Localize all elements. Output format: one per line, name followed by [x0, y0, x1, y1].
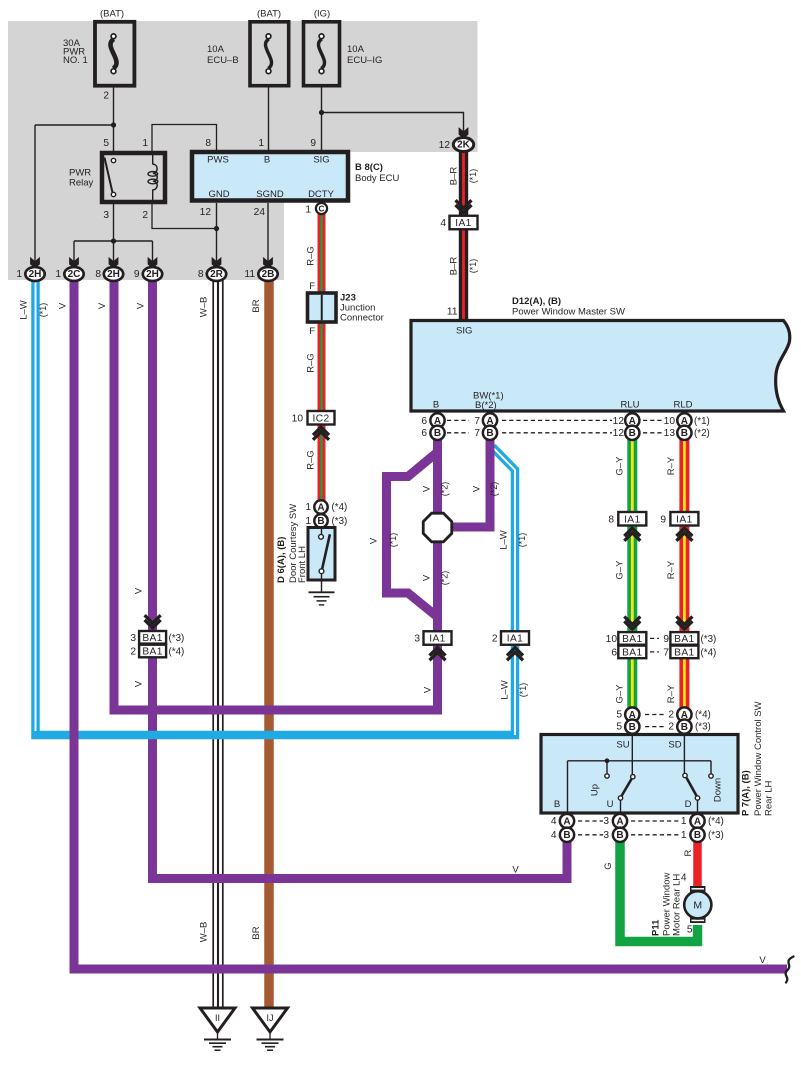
svg-text:PWS: PWS: [207, 155, 229, 166]
svg-text:B(*2): B(*2): [475, 400, 497, 411]
svg-text:V: V: [134, 587, 145, 594]
svg-text:2: 2: [668, 710, 674, 721]
svg-text:11: 11: [447, 307, 458, 318]
svg-text:U: U: [607, 799, 614, 810]
svg-text:V: V: [472, 485, 483, 492]
svg-text:R–G: R–G: [306, 450, 317, 470]
svg-text:B 8(C): B 8(C): [355, 162, 383, 173]
svg-text:BA1: BA1: [142, 633, 162, 644]
svg-text:P 7(A), (B): P 7(A), (B): [741, 770, 752, 816]
svg-text:6: 6: [421, 416, 427, 427]
svg-text:R–Y: R–Y: [666, 456, 677, 475]
svg-text:V: V: [134, 680, 145, 687]
svg-text:1: 1: [305, 516, 311, 527]
svg-text:8: 8: [205, 138, 211, 149]
svg-text:1: 1: [305, 205, 311, 216]
svg-text:SIG: SIG: [456, 326, 472, 337]
svg-text:Rear LH: Rear LH: [764, 780, 775, 816]
svg-text:IA1: IA1: [429, 634, 446, 645]
svg-text:B: B: [616, 830, 623, 841]
svg-text:IA1: IA1: [676, 514, 693, 525]
svg-text:Up: Up: [590, 784, 601, 796]
svg-text:(BAT): (BAT): [257, 9, 281, 20]
svg-text:(*1): (*1): [518, 683, 528, 698]
svg-text:9: 9: [310, 138, 316, 149]
svg-text:(*3): (*3): [332, 516, 348, 527]
svg-text:ECU–IG: ECU–IG: [347, 55, 382, 66]
svg-text:L–W: L–W: [19, 300, 30, 320]
svg-text:(*1): (*1): [694, 416, 710, 427]
svg-text:4: 4: [551, 830, 557, 841]
svg-text:IA1: IA1: [624, 514, 641, 525]
svg-text:A: A: [694, 816, 701, 827]
svg-text:2B: 2B: [262, 269, 275, 280]
svg-text:9: 9: [134, 269, 140, 280]
svg-text:D: D: [685, 799, 692, 810]
svg-text:Power Window Control SW: Power Window Control SW: [753, 701, 764, 816]
svg-text:(*2): (*2): [489, 482, 499, 497]
svg-text:V: V: [58, 302, 69, 309]
svg-text:BR: BR: [251, 926, 262, 939]
svg-text:V: V: [136, 302, 147, 309]
svg-text:6: 6: [421, 428, 427, 439]
svg-text:NO. 1: NO. 1: [63, 55, 88, 66]
svg-text:Down: Down: [713, 778, 724, 802]
svg-text:Connector: Connector: [340, 313, 384, 324]
svg-text:10: 10: [292, 414, 304, 425]
svg-text:W–B: W–B: [199, 922, 210, 943]
svg-text:2: 2: [668, 722, 674, 733]
svg-text:9: 9: [660, 515, 666, 526]
svg-text:(*4): (*4): [708, 816, 724, 827]
svg-text:SGND: SGND: [256, 189, 284, 200]
svg-text:L–W: L–W: [499, 530, 510, 550]
svg-text:V: V: [423, 686, 434, 693]
svg-text:R–Y: R–Y: [666, 684, 677, 703]
svg-text:V: V: [97, 302, 108, 309]
svg-text:R–G: R–G: [306, 353, 317, 373]
svg-text:(*2): (*2): [694, 428, 710, 439]
svg-text:Body ECU: Body ECU: [355, 173, 399, 184]
svg-text:(*4): (*4): [169, 647, 185, 658]
svg-text:5: 5: [616, 722, 622, 733]
svg-text:(*4): (*4): [701, 648, 717, 659]
svg-text:4: 4: [440, 218, 446, 229]
svg-text:2C: 2C: [68, 269, 81, 280]
svg-text:(BAT): (BAT): [100, 9, 124, 20]
svg-text:2K: 2K: [457, 140, 471, 151]
svg-text:10A: 10A: [207, 44, 225, 55]
svg-text:(*4): (*4): [332, 502, 348, 513]
svg-text:12: 12: [200, 207, 212, 218]
svg-text:V: V: [422, 485, 433, 492]
svg-text:(*3): (*3): [169, 633, 185, 644]
svg-text:5: 5: [103, 138, 109, 149]
svg-text:DCTY: DCTY: [308, 189, 335, 200]
svg-text:Relay: Relay: [69, 178, 94, 189]
svg-text:A: A: [317, 502, 324, 513]
svg-text:B–R: B–R: [449, 257, 460, 276]
svg-text:B: B: [433, 399, 439, 410]
svg-text:(IG): (IG): [314, 9, 330, 20]
svg-text:B: B: [264, 155, 270, 166]
svg-text:8: 8: [608, 515, 614, 526]
svg-text:(*3): (*3): [708, 830, 724, 841]
svg-text:2H: 2H: [146, 269, 159, 280]
svg-text:9: 9: [663, 634, 669, 645]
svg-text:2: 2: [142, 210, 148, 221]
svg-text:V: V: [422, 574, 433, 581]
svg-text:10A: 10A: [347, 44, 365, 55]
svg-text:8: 8: [198, 269, 204, 280]
svg-text:L–W: L–W: [500, 680, 511, 700]
svg-text:C: C: [319, 205, 325, 214]
svg-text:1: 1: [305, 502, 311, 513]
svg-text:G: G: [603, 862, 614, 869]
svg-text:P11: P11: [651, 919, 662, 936]
svg-text:Power Window Master SW: Power Window Master SW: [512, 307, 625, 318]
svg-text:12: 12: [613, 416, 625, 427]
svg-text:R–G: R–G: [306, 246, 317, 266]
svg-text:BA1: BA1: [622, 634, 642, 645]
svg-text:IA1: IA1: [507, 634, 524, 645]
svg-text:V: V: [512, 865, 519, 876]
svg-text:4: 4: [551, 816, 557, 827]
svg-text:(*1): (*1): [38, 303, 48, 318]
svg-text:A: A: [563, 816, 570, 827]
svg-text:2H: 2H: [29, 269, 42, 280]
svg-text:2: 2: [103, 91, 109, 102]
svg-text:7: 7: [474, 428, 480, 439]
svg-text:(*1): (*1): [468, 259, 478, 274]
svg-text:IC2: IC2: [312, 413, 329, 424]
svg-text:24: 24: [254, 207, 266, 218]
svg-text:(*4): (*4): [695, 710, 711, 721]
svg-text:(*1): (*1): [517, 533, 527, 548]
svg-text:A: A: [616, 816, 623, 827]
svg-text:R: R: [683, 849, 694, 856]
svg-text:SU: SU: [616, 740, 629, 751]
svg-text:5: 5: [687, 925, 693, 936]
svg-text:B: B: [317, 516, 324, 527]
svg-text:IJ: IJ: [266, 1013, 273, 1023]
svg-text:1: 1: [258, 138, 264, 149]
svg-text:B: B: [554, 799, 560, 810]
svg-text:7: 7: [474, 416, 480, 427]
svg-text:B: B: [486, 428, 493, 439]
svg-text:W–B: W–B: [199, 297, 210, 318]
svg-text:V: V: [369, 537, 380, 544]
svg-text:B: B: [681, 428, 688, 439]
svg-text:3: 3: [603, 830, 609, 841]
svg-text:B: B: [629, 722, 636, 733]
svg-text:(*3): (*3): [701, 634, 717, 645]
svg-text:D12(A), (B): D12(A), (B): [512, 296, 561, 307]
svg-text:(*2): (*2): [440, 571, 450, 586]
svg-text:B: B: [681, 722, 688, 733]
svg-text:2: 2: [130, 647, 136, 658]
svg-text:7: 7: [663, 648, 669, 659]
svg-text:BR: BR: [251, 299, 262, 312]
svg-text:1: 1: [681, 830, 687, 841]
svg-text:3: 3: [414, 634, 420, 645]
svg-text:RLD: RLD: [673, 399, 692, 410]
svg-text:Front LH: Front LH: [297, 546, 308, 583]
svg-text:2H: 2H: [107, 269, 120, 280]
svg-text:F: F: [309, 281, 315, 292]
svg-text:F: F: [309, 326, 315, 337]
svg-text:M: M: [693, 900, 702, 912]
svg-text:13: 13: [664, 428, 676, 439]
svg-text:5: 5: [616, 710, 622, 721]
svg-text:(*3): (*3): [695, 722, 711, 733]
svg-text:D 6(A), (B): D 6(A), (B): [276, 537, 287, 583]
svg-text:1: 1: [142, 138, 148, 149]
svg-text:12: 12: [439, 140, 451, 151]
svg-text:Motor Rear LH: Motor Rear LH: [672, 874, 683, 936]
svg-text:11: 11: [244, 269, 255, 280]
svg-text:G–Y: G–Y: [615, 684, 626, 704]
svg-text:RLU: RLU: [620, 399, 639, 410]
svg-text:10: 10: [606, 634, 618, 645]
svg-text:1: 1: [55, 269, 61, 280]
svg-text:10: 10: [664, 416, 676, 427]
svg-text:3: 3: [603, 816, 609, 827]
svg-text:IA1: IA1: [455, 218, 472, 229]
svg-text:ECU–B: ECU–B: [207, 55, 239, 66]
svg-text:B–R: B–R: [449, 167, 460, 186]
svg-text:V: V: [759, 955, 766, 966]
svg-text:BA1: BA1: [622, 647, 642, 658]
svg-text:B: B: [629, 428, 636, 439]
svg-text:1: 1: [681, 816, 687, 827]
svg-text:3: 3: [103, 210, 109, 221]
svg-text:1: 1: [16, 269, 22, 280]
svg-text:3: 3: [130, 633, 136, 644]
svg-text:2R: 2R: [210, 269, 224, 280]
svg-text:2: 2: [492, 634, 498, 645]
svg-text:B: B: [563, 830, 570, 841]
svg-text:6: 6: [611, 648, 617, 659]
svg-text:(*2): (*2): [440, 482, 450, 497]
svg-text:G–Y: G–Y: [615, 560, 626, 580]
svg-text:BA1: BA1: [674, 634, 694, 645]
svg-text:B: B: [434, 428, 441, 439]
svg-text:SIG: SIG: [313, 155, 329, 166]
svg-text:BA1: BA1: [674, 647, 694, 658]
svg-text:8: 8: [95, 269, 101, 280]
svg-text:R–Y: R–Y: [666, 560, 677, 579]
svg-text:B: B: [694, 830, 701, 841]
svg-text:SD: SD: [668, 740, 681, 751]
svg-text:G–Y: G–Y: [615, 456, 626, 476]
svg-text:BA1: BA1: [142, 647, 162, 658]
svg-text:(*1): (*1): [388, 533, 398, 548]
svg-text:12: 12: [613, 428, 625, 439]
svg-text:(*1): (*1): [468, 169, 478, 184]
svg-text:II: II: [215, 1013, 220, 1023]
svg-text:GND: GND: [208, 189, 229, 200]
